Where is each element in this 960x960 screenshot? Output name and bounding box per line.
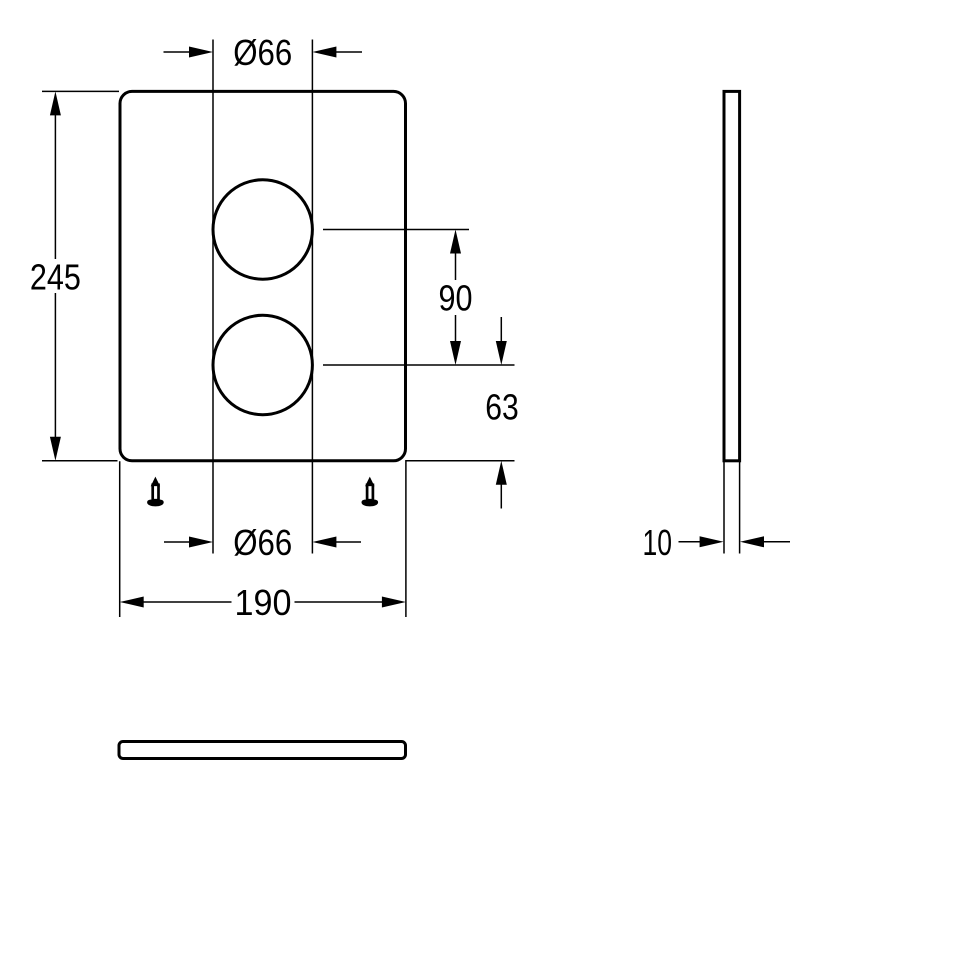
svg-text:Ø66: Ø66 bbox=[233, 32, 292, 73]
dimension 90 line bbox=[450, 230, 461, 366]
extension line left tangent bbox=[212, 40, 214, 554]
dimension 10 right arrow bbox=[740, 536, 790, 547]
extension line 245 top bbox=[42, 90, 119, 92]
side view plate outline bbox=[724, 91, 740, 460]
svg-text:10: 10 bbox=[642, 522, 672, 563]
svg-text:63: 63 bbox=[485, 387, 519, 428]
dimension Ø66 bottom left arrow bbox=[164, 537, 213, 548]
dimension Ø66 top right arrow bbox=[312, 47, 362, 58]
extension line 190 left bbox=[119, 461, 121, 617]
hole 2 lower Ø66 bbox=[213, 315, 312, 414]
screw left bbox=[147, 477, 164, 507]
hole 1 upper Ø66 bbox=[213, 180, 312, 279]
svg-text:245: 245 bbox=[30, 257, 81, 298]
extension line side left bbox=[723, 462, 725, 554]
dimension 63 upper arrow bbox=[496, 317, 507, 365]
screw right bbox=[362, 477, 379, 507]
dimension 190 line bbox=[120, 597, 406, 608]
dimension Ø66 bottom right arrow bbox=[312, 537, 361, 548]
bottom view plate outline bbox=[119, 742, 406, 759]
extension line hole1 center bbox=[323, 229, 469, 231]
extension line side right bbox=[739, 462, 741, 554]
dimension Ø66 top left arrow bbox=[164, 47, 214, 58]
svg-text:90: 90 bbox=[439, 278, 473, 319]
plate front view outline bbox=[120, 91, 406, 460]
dimension 63 lower arrow bbox=[496, 461, 507, 509]
svg-text:Ø66: Ø66 bbox=[233, 522, 292, 563]
extension line hole2 center bbox=[323, 364, 515, 366]
extension line right tangent bbox=[311, 40, 313, 554]
dimension 10 left arrow bbox=[679, 536, 724, 547]
svg-text:190: 190 bbox=[235, 582, 292, 623]
dimension 245 line bbox=[50, 91, 61, 460]
extension line 245/63 bottom left bbox=[42, 460, 118, 462]
extension line 190 right bbox=[405, 460, 407, 617]
extension line plate bottom right bbox=[406, 460, 515, 462]
